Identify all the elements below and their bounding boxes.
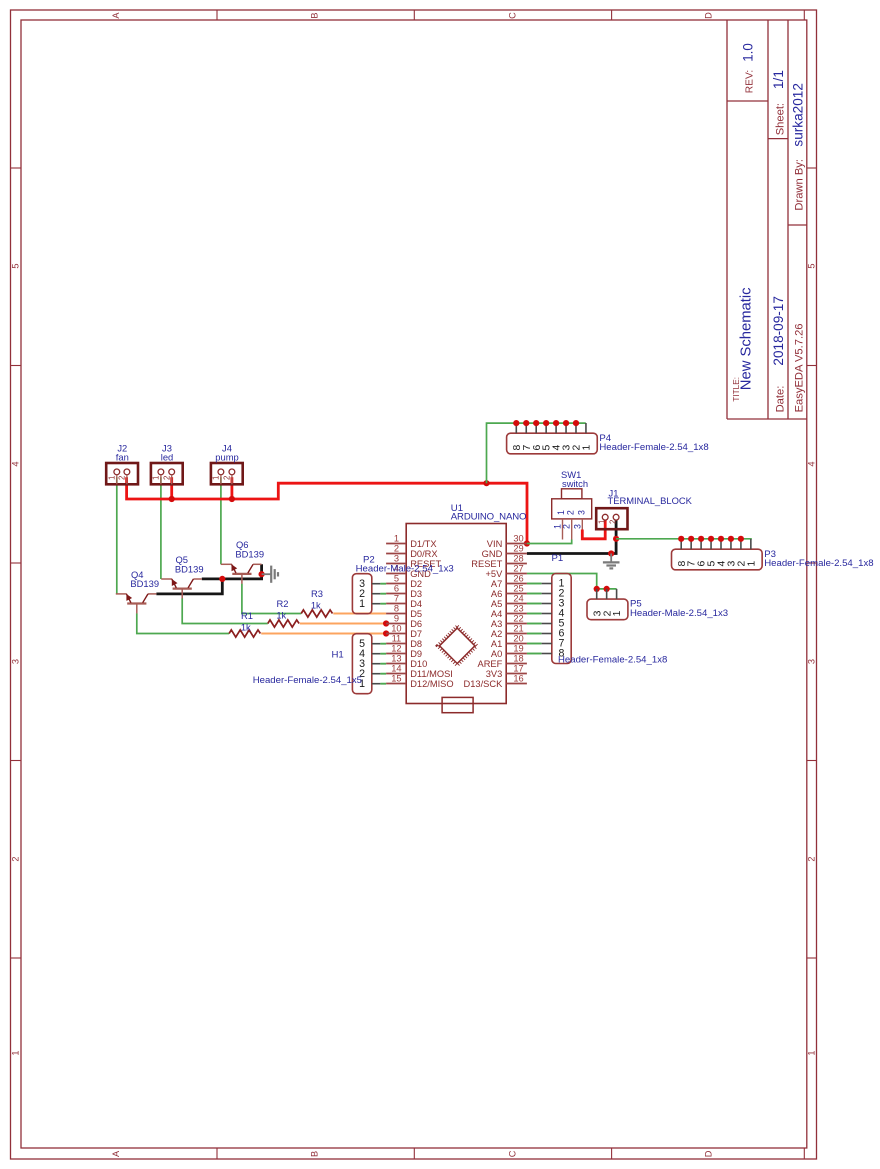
svg-text:1: 1: [612, 610, 623, 616]
svg-text:B: B: [310, 13, 320, 19]
svg-text:TERMINAL_BLOCK: TERMINAL_BLOCK: [608, 495, 693, 506]
svg-text:fan: fan: [116, 452, 129, 463]
svg-text:1: 1: [597, 520, 606, 524]
svg-text:29: 29: [513, 544, 523, 554]
wire +12V red bus from J2 pin2 to U1 VIN: [127, 477, 527, 543]
junction Q5 collector on black bus: [219, 576, 225, 582]
svg-text:D5: D5: [410, 609, 422, 619]
wire green Q4 base to R1: [137, 613, 229, 633]
connector J1 TERMINAL_BLOCK: [596, 508, 627, 529]
header Header-Female-2.54_1x8 at U1 analog pins: [552, 574, 571, 664]
svg-text:18: 18: [513, 654, 523, 664]
svg-text:New Schematic: New Schematic: [739, 287, 755, 390]
wire green J3 pin1 to Q5 emitter: [160, 477, 162, 579]
wire green U1 A7 to header pin 1: [527, 583, 542, 585]
junction U1 pin10: [383, 630, 389, 636]
wire red stub J3 pin2: [170, 477, 173, 499]
junction ground stub on black bus: [259, 571, 265, 577]
svg-text:D9: D9: [410, 649, 422, 659]
svg-text:5: 5: [11, 263, 21, 268]
svg-text:1: 1: [746, 560, 757, 566]
junction U1 VIN pin30: [524, 540, 530, 546]
header P5 Header-Male-2.54_1x3: [587, 599, 628, 620]
svg-text:3V3: 3V3: [486, 669, 503, 679]
svg-text:3: 3: [577, 510, 587, 515]
svg-text:13: 13: [391, 654, 401, 664]
U1 left pins 1-15: [386, 543, 406, 545]
svg-text:17: 17: [513, 664, 523, 674]
wire green U1 A6 to header pin 2: [527, 593, 542, 595]
svg-text:D12/MISO: D12/MISO: [410, 679, 453, 689]
wire black collector bus Q4-Q5-Q6: [156, 579, 222, 594]
wire green U1 A0 to header pin 8: [527, 653, 542, 655]
svg-text:Header-Male-2.54_1x3: Header-Male-2.54_1x3: [630, 608, 728, 619]
svg-text:1/1: 1/1: [771, 70, 786, 89]
transistor Q4 BD139: [127, 602, 146, 604]
svg-text:EasyEDA V5.7.26: EasyEDA V5.7.26: [793, 323, 805, 412]
svg-text:2: 2: [807, 856, 817, 861]
svg-text:A7: A7: [491, 579, 502, 589]
svg-text:A: A: [111, 12, 121, 19]
svg-text:5: 5: [394, 574, 399, 584]
svg-text:BD139: BD139: [235, 549, 264, 560]
ground symbol near P1: [610, 554, 612, 563]
svg-text:AREF: AREF: [478, 659, 503, 669]
svg-text:A0: A0: [491, 649, 502, 659]
svg-text:2: 2: [608, 520, 617, 524]
svg-text:Header-Female-2.54_1x8: Header-Female-2.54_1x8: [599, 442, 708, 453]
svg-text:1: 1: [108, 476, 117, 480]
U1 usb connector rect: [442, 697, 473, 712]
svg-text:20: 20: [513, 634, 523, 644]
svg-text:surka2012: surka2012: [791, 83, 806, 146]
junction P5 pin3: [594, 586, 600, 592]
svg-text:R1: R1: [241, 610, 253, 621]
svg-text:Header-Male-2.54_1x3: Header-Male-2.54_1x3: [356, 563, 454, 574]
svg-text:1: 1: [359, 598, 365, 610]
switch SW1: [552, 499, 592, 519]
wire black J1 pin2 to U1 GND pin29 (net P1): [527, 520, 616, 554]
connector J3 led: [151, 463, 183, 484]
wire green U1 A3 to header pin 5: [527, 623, 542, 625]
wire green U1 A5 to header pin 3: [527, 603, 542, 605]
U1 chip icon: [438, 626, 477, 665]
svg-text:A6: A6: [491, 589, 502, 599]
wire orange R3 to U1 pin8 D5: [333, 612, 386, 614]
svg-text:D7: D7: [410, 629, 422, 639]
junctions P3 pins 8-2 on green wire: [678, 536, 684, 542]
svg-text:Drawn By:: Drawn By:: [793, 159, 805, 211]
header P4 Header-Female-2.54_1x8: [507, 433, 598, 454]
wire green Q6 base to R3: [242, 584, 301, 614]
junction P3 green on black wire: [613, 536, 619, 542]
svg-text:3: 3: [394, 554, 399, 564]
svg-text:3: 3: [573, 524, 583, 529]
svg-text:6: 6: [394, 584, 399, 594]
svg-text:2: 2: [223, 476, 232, 480]
svg-text:30: 30: [513, 534, 523, 544]
wire green U1 A4 to header pin 4: [527, 613, 542, 615]
header H1 Header-Female-2.54_1x5: [352, 634, 371, 694]
resistor R1 1k: [229, 630, 260, 637]
svg-text:26: 26: [513, 574, 523, 584]
svg-text:H1: H1: [332, 650, 344, 661]
svg-text:23: 23: [513, 604, 523, 614]
svg-text:D6: D6: [410, 619, 422, 629]
svg-text:8: 8: [394, 604, 399, 614]
svg-text:1k: 1k: [311, 600, 321, 611]
svg-text:1: 1: [394, 534, 399, 544]
svg-text:P1: P1: [552, 553, 564, 564]
svg-text:A4: A4: [491, 609, 502, 619]
wire orange R2 to U1 pin9 D6: [300, 622, 386, 624]
wire red stub J4 pin2: [230, 477, 233, 499]
svg-text:D4: D4: [410, 599, 422, 609]
svg-text:5: 5: [807, 263, 817, 268]
wire green P4 branch: [487, 423, 586, 483]
svg-text:C: C: [508, 12, 518, 19]
svg-text:2: 2: [394, 544, 399, 554]
op-amp U1 ARDUINO_NANO body: [406, 524, 506, 704]
svg-text:24: 24: [513, 594, 523, 604]
wire green to P3 header: [616, 538, 752, 540]
svg-text:ARDUINO_NANO: ARDUINO_NANO: [451, 512, 527, 523]
junction J3 pin2 on red bus: [169, 496, 175, 502]
svg-text:2: 2: [162, 476, 171, 480]
wire green U1 A2 to header pin 6: [527, 633, 542, 635]
header P3 Header-Female-2.54_1x8: [672, 549, 763, 570]
wire green U1 A1 to header pin 7: [527, 643, 542, 645]
svg-text:12: 12: [391, 644, 401, 654]
resistor R3 1k: [301, 610, 332, 617]
svg-text:2: 2: [118, 476, 127, 480]
wire green J2 pin1 to Q4 emitter: [116, 477, 118, 594]
wire orange R1 to U1 pin10 D7: [261, 632, 386, 634]
svg-text:BD139: BD139: [130, 578, 159, 589]
svg-text:D: D: [704, 12, 714, 19]
svg-text:11: 11: [392, 634, 402, 644]
svg-text:REV:: REV:: [745, 70, 756, 93]
svg-text:10: 10: [391, 624, 401, 634]
junction P4 branch on red bus: [483, 480, 489, 486]
ruler ticks and labels: [216, 10, 218, 20]
svg-text:25: 25: [513, 584, 523, 594]
svg-text:D11/MOSI: D11/MOSI: [410, 669, 453, 679]
connector J4 pump: [211, 463, 243, 484]
U1 right pins 30-16: [506, 543, 527, 545]
transistor Q5 BD139: [173, 587, 192, 589]
svg-text:1: 1: [807, 1050, 817, 1055]
svg-text:switch: switch: [562, 478, 588, 489]
svg-text:28: 28: [513, 554, 523, 564]
svg-text:pump: pump: [215, 452, 238, 463]
svg-text:A5: A5: [491, 599, 502, 609]
wire green VIN to SW1 pin2: [527, 540, 572, 544]
svg-text:BD139: BD139: [175, 563, 204, 574]
svg-text:C: C: [508, 1150, 518, 1157]
svg-text:D10: D10: [410, 659, 427, 669]
junction ground stem on black wire: [608, 550, 614, 556]
svg-text:led: led: [161, 452, 174, 463]
svg-text:Header-Female-2.54_1x8: Header-Female-2.54_1x8: [764, 558, 873, 569]
svg-text:1: 1: [212, 476, 221, 480]
svg-text:2: 2: [562, 524, 572, 529]
svg-text:D: D: [704, 1150, 714, 1157]
resistor R2 1k: [268, 620, 299, 627]
svg-text:+5V: +5V: [485, 569, 503, 579]
svg-text:B: B: [310, 1151, 320, 1157]
svg-text:D3: D3: [410, 589, 422, 599]
title block grid: [726, 20, 728, 419]
svg-text:4: 4: [11, 461, 21, 466]
svg-text:GND: GND: [482, 549, 503, 559]
svg-text:D1/TX: D1/TX: [410, 539, 436, 549]
wire gray stub to ground near Q6: [262, 573, 271, 575]
svg-text:22: 22: [513, 614, 523, 624]
svg-text:1: 1: [152, 476, 161, 480]
ground symbol near Q6 (rotated): [270, 566, 272, 583]
svg-text:3: 3: [807, 659, 817, 664]
svg-text:15: 15: [391, 674, 401, 684]
svg-text:2: 2: [11, 856, 21, 861]
svg-text:1: 1: [582, 444, 593, 450]
transistor Q6 BD139: [232, 573, 251, 575]
svg-text:1: 1: [11, 1050, 21, 1055]
svg-text:Sheet:: Sheet:: [775, 103, 787, 135]
svg-text:19: 19: [513, 644, 523, 654]
svg-text:1k: 1k: [241, 621, 251, 632]
svg-text:9: 9: [394, 614, 399, 624]
svg-text:1.0: 1.0: [740, 43, 755, 62]
svg-text:21: 21: [513, 624, 523, 634]
svg-text:2: 2: [566, 510, 576, 515]
connector J2 fan: [106, 463, 138, 484]
svg-text:R2: R2: [277, 598, 289, 609]
svg-text:2018-09-17: 2018-09-17: [771, 296, 786, 366]
wire red SW1 pin3 to J1 pin1: [582, 520, 605, 539]
svg-text:7: 7: [394, 594, 399, 604]
svg-text:1: 1: [556, 510, 566, 515]
svg-text:1k: 1k: [276, 609, 286, 620]
svg-text:A2: A2: [491, 629, 502, 639]
svg-text:VIN: VIN: [487, 539, 503, 549]
svg-text:Header-Female-2.54_1x8: Header-Female-2.54_1x8: [558, 654, 667, 665]
svg-text:D8: D8: [410, 639, 422, 649]
svg-text:D2: D2: [410, 579, 422, 589]
svg-text:16: 16: [513, 674, 523, 684]
svg-text:A: A: [111, 1150, 121, 1157]
svg-text:14: 14: [391, 664, 401, 674]
wire green +5V to P5 header: [527, 574, 617, 589]
wire green Q5 base to R2: [182, 598, 268, 623]
svg-text:27: 27: [513, 564, 523, 574]
svg-text:R3: R3: [311, 588, 323, 599]
junction J4 pin2 on red bus: [229, 496, 235, 502]
header P2 Header-Male-2.54_1x3: [352, 574, 371, 614]
svg-text:Header-Female-2.54_1x5: Header-Female-2.54_1x5: [253, 675, 362, 686]
svg-text:4: 4: [807, 461, 817, 466]
svg-text:RESET: RESET: [471, 559, 502, 569]
svg-text:D0/RX: D0/RX: [410, 549, 437, 559]
svg-text:D13/SCK: D13/SCK: [464, 679, 504, 689]
junction U1 pin9: [383, 620, 389, 626]
svg-text:A1: A1: [491, 639, 502, 649]
svg-text:3: 3: [11, 659, 21, 664]
junction P5 pin2: [604, 586, 610, 592]
svg-text:Date:: Date:: [775, 386, 787, 413]
junctions P4 pins 8-2 on green wire: [513, 420, 519, 426]
wire green J4 pin1 to Q6 emitter: [220, 477, 222, 564]
svg-text:A3: A3: [491, 619, 502, 629]
